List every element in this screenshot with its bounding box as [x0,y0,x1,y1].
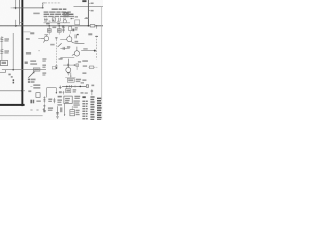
wire: vertical x=1.9 left input [1,36,3,60]
node: junction (96.6,25.8) [96,25,97,26]
wire: horizontal y=87.7 [47,87,57,89]
marks row above grey line [30,109,32,110]
box TP501 bottom-left [1,60,8,65]
capacitor C520 vertical [53,98,55,103]
wire: horizontal y=48.4 with capacitor C406 [60,47,69,49]
relay box K501 [36,93,40,98]
node: junction (59.2,25.8) [58,25,60,27]
node: fuse junction tick [42,7,44,8]
label dark top right [58,96,62,98]
label blob right of symbols [75,16,78,17]
wire: vertical x=64.6 below T501 [64,104,66,116]
ground under Q405 [67,73,70,75]
flyback transformer T501 box [64,96,72,103]
pin label blob [91,10,94,12]
node: junction dot (15.6,7.9) [15,7,17,9]
label right col [82,72,86,74]
label right of dashed [59,58,63,59]
wire: horizontal y=77.7 [65,77,75,79]
node: junction at thick bus [21,90,23,92]
title text block line 2 [44,11,71,12]
label above left [81,82,84,83]
label right of C520 [57,99,62,101]
wire: vertical grey line x=19.6 [19,0,21,25]
node: junction (49.2,25.8) [48,25,50,27]
coil L502 small box [76,64,79,67]
transistor Q501 HOR OUT diagonal with arrow [28,72,34,78]
label 47k mid [42,58,46,59]
polarity + mark [43,108,45,110]
label R504 blob [30,32,34,34]
wire: thick bottom-left horizontal [0,104,25,106]
connector J2 pin ticks [0,50,3,54]
wire: corner into x=88.4 at y=18.6 [84,18,88,20]
wire: dashed vertical x=56.4 [55,37,57,68]
capacitor C408 inline bars [68,64,69,67]
transistor Q402 [41,34,49,42]
tick component at (38.6,38.3) [38,37,40,39]
wire: horizontal y=6.7 top right [74,6,104,8]
arrow down x=70.8 [70,72,72,77]
title text block line 4 [44,16,74,17]
pin tick y=10.7 [88,10,90,12]
label blob top-right corner [82,0,86,2]
wire: stub below R402 [48,32,50,34]
label between resistors [52,27,56,29]
small mark pair [71,18,72,19]
capacitor bars row [64,18,65,20]
label small [28,90,31,92]
node: junction (13.2,69.7) [12,69,14,71]
capacitor C402 bars [58,18,60,21]
wire: dashed horizontal y=2.9 [45,2,61,4]
resistor R403 vertical with value box [58,26,60,29]
capacitor C518 vertical [63,91,65,95]
label right [83,65,87,66]
node: junction (80.3,86.4) [80,86,82,88]
label above Q402 [44,34,48,35]
label above wire y=50.6 [83,48,87,49]
label right of C523 [76,110,80,111]
ground under C522 [56,116,59,118]
label block right of T501 [74,96,80,97]
label blob [75,27,78,28]
label blob L401 [33,13,39,15]
wire: vertical x=13.2 [12,33,14,70]
label (91.4,84.6) [91,85,94,87]
wire: horizontal y=90.8 left [0,90,22,92]
label right col 2 [82,79,86,81]
tick right of bus [23,90,25,92]
IC U401 box [75,20,80,25]
label blob [75,29,78,30]
title text block line 3 [44,14,74,15]
capacitor C522 with ground [56,106,59,116]
wire: vertical x=46.6 [46,88,48,98]
component list right column rows [90,96,94,120]
arrow diagonal (deflection) [58,43,62,47]
transistor Q401 small circle [63,20,66,23]
capacitor C516 box with label [66,89,71,93]
capacitor C405 with top tick [75,34,77,38]
wire: vertical x=15.7 into bus [15,20,17,26]
node: junction (74.4,65.1) [74,64,75,65]
wire: vertical feed top-left [15,0,17,9]
wire: stub into C516 [66,86,68,88]
wire: stub below L402 [69,31,71,34]
label Q501 [28,79,30,81]
diode D503 box at wire end [86,85,88,88]
node: dot (56.4,92.8) [56,92,57,93]
wire: thick vertical main bus [21,0,23,106]
component list far right dark column rows [97,98,102,120]
zener D501 [59,86,62,89]
label above bus right [57,23,60,25]
label inside T501 rows [65,98,70,99]
label right of C406 [67,46,70,48]
wire: horizontal y=65.1 [63,64,78,66]
label mid2 [42,65,46,66]
wire: faint stub below R522 [43,103,45,106]
label HOR OUT [28,81,30,83]
resistor R522 vertical [43,96,45,102]
capacitor C407 bars at node [55,66,57,67]
tick component at (38.8,50.8) [38,50,40,52]
label second row [30,63,37,65]
capacitor C519 vertical right [91,89,93,95]
wire: grey horizontal y=115.7 [0,115,43,117]
wire: horizontal y=69.7 [2,69,46,71]
wire: vertical x=56.4 lower [55,88,57,93]
label 47k right [82,60,88,62]
label above [78,61,81,62]
label right of L503 [76,79,81,81]
wire: corner exit left y=72.3 [0,70,6,72]
transistor Q403 [67,35,85,44]
label text block 3 rows [63,12,68,13]
label dark at pot top [62,25,65,27]
label J1 two rows [4,38,9,39]
label 47 left [60,58,63,60]
label E-W blob [26,52,31,55]
wire: vertical x=88.4 [87,0,89,26]
fuse F501 squiggle [42,3,45,8]
diode D502 on wire [69,85,71,87]
resistor R515 on wire y=69.7 [33,68,40,71]
arrowhead bottom x=64.6 [64,114,65,116]
wire: bottom of symbol row [44,22,71,24]
ground / dashed vertical x=56.4 top bars [55,38,58,40]
capacitor C401 symbol row under title [44,18,48,22]
transistor Q404 [72,47,80,57]
label second [11,76,13,78]
label blob 12V [88,33,92,35]
resistor R516 on wire [52,67,56,69]
border: right vertical [100,7,102,100]
label under D501 [59,91,62,93]
label CE dark [30,100,32,104]
wire: stub down x=77.1 [76,67,78,70]
capacitor C403 dark block [72,29,74,32]
wire: short horizontal y=22.6 [20,22,24,24]
coil L503 box [67,78,74,82]
label right of C521 [48,107,53,109]
wire: horizontal y=57.4 [60,56,74,58]
node: top of dashed vertical [95,36,98,37]
resistor R404 inline on bus [90,25,95,27]
potentiometer VR401 [62,26,65,33]
node: junction (15.8,25.8) [15,25,17,27]
wire: horizontal into Q403 [60,39,66,41]
label right of R522 [48,99,52,101]
title text block line 1 [52,9,67,10]
pin tick y=3.3 on vertical x=88.4 [88,2,90,4]
label right of C516 [73,89,77,90]
node: junction (88.4,25.8) [88,25,90,27]
label R520 two rows [33,84,40,86]
resistor R402 vertical with value box [48,26,50,29]
wire: stub y=31.9 right of thick bus [23,31,30,33]
capacitor C521 electrolytic [43,105,46,113]
pin label blob [85,17,87,18]
wire: horizontal y=86.4 [62,85,86,87]
tiny marks row under symbols [44,21,47,22]
tick x=75 [74,85,76,87]
marks row y=92.3 [81,92,84,93]
label inside L503 [68,79,73,81]
label under C405 [75,41,79,43]
capacitor C523 boxed electrolytic [70,110,75,116]
capacitor C406 bars [63,47,65,50]
wire: horizontal y=7.9 [13,7,42,9]
label +12V above bus [46,23,50,25]
wire: long horizontal bus y=25.8 [0,25,103,27]
component list left column rows [82,96,87,119]
label 1k [42,72,46,73]
tick left of label [30,85,32,87]
label C517 [30,60,36,62]
node: junction (66.8,86.4) [66,86,68,88]
label inside TP501 [2,62,6,64]
wire: horizontal y=50.6 to deflection [81,50,94,52]
label rows below [73,100,79,101]
coil L402 box [69,27,72,31]
pin tick y=18.0 [87,17,89,19]
label under Q402 [50,44,54,46]
tick right [96,66,97,68]
wire: stub below R403 [58,32,60,34]
node: twin dots [13,79,15,81]
node: junction (56.4,68.1) [56,67,58,69]
label right of C522 [60,107,62,112]
resistor box R401 [52,18,55,21]
wire: stub above C523 [71,106,73,110]
label small x=26 y=38 [26,38,30,40]
connector J1 pin ticks [0,38,3,42]
label "2" on thick bus [25,62,28,64]
resistor R517 on wire y=67.2 [89,66,96,68]
pin label blob [91,3,94,5]
wire: dashed vertical x=96.6 [96,36,98,59]
label J2 two rows [4,50,9,51]
label +B [8,74,10,76]
transistor Q405 [66,59,71,73]
node: contact dot (94.8,50.6) [94,50,96,52]
label faint right [36,100,40,102]
wire: stub down from bus at x=96.6 [96,26,98,29]
